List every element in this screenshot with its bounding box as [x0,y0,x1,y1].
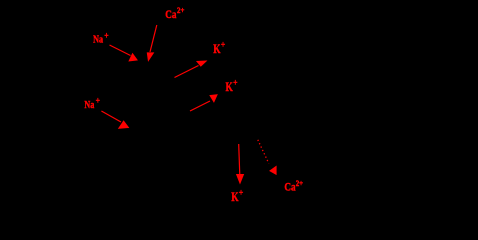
svg-text:+: + [96,96,100,106]
svg-text:+: + [104,31,108,41]
svg-text:2+: 2+ [177,6,185,15]
label K+ middle [226,78,238,95]
arrow Ca2+ top (line + head) [147,25,157,61]
label Ca2+ bottom [284,179,303,194]
arrow Ca2+ bottom dotted (line + head) [258,140,276,175]
svg-text:Na: Na [84,99,94,111]
svg-text:Ca: Ca [284,180,295,194]
arrow K+ bottom vertical (line + head) [237,144,244,183]
svg-text:2+: 2+ [296,179,304,188]
arrow Na+ bottom (line + head) [101,111,128,128]
svg-text:Na: Na [93,34,103,46]
label K+ top [213,40,225,57]
label Na+ bottom [84,96,100,111]
arrow K+ top (line + head) [175,61,207,78]
svg-text:Ca: Ca [165,7,176,21]
label Ca2+ top [165,6,184,21]
svg-text:+: + [221,40,225,50]
arrow K+ middle (line + head) [190,95,217,111]
label Na+ top [93,31,109,46]
svg-text:+: + [233,78,237,88]
arrow Na+ top (line + head) [110,45,138,61]
svg-text:+: + [239,188,243,198]
label K+ bottom [231,188,243,205]
